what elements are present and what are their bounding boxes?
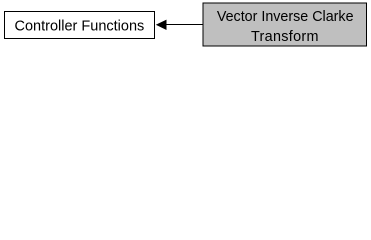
node: Vector Inverse Clarke Transform (gray box) [203,3,367,46]
background [0,0,371,51]
arrowhead pointing left [156,20,167,30]
node: Controller Functions (box) [5,12,155,39]
wire: arrow shaft [166,24,204,26]
svg-text:Vector Inverse Clarke: Vector Inverse Clarke [217,9,354,25]
svg-text:Transform: Transform [251,29,319,45]
svg-text:Controller Functions: Controller Functions [15,18,145,34]
